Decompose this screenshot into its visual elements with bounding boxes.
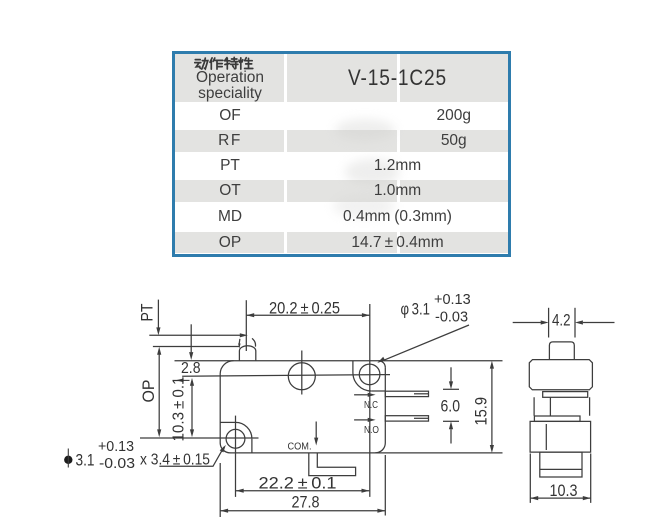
top-right mounting ear left edge xyxy=(352,361,354,373)
6.0 upper arrow xyxy=(450,367,452,381)
side lower inner line xyxy=(545,424,547,450)
body bottom-right corner arc xyxy=(375,443,385,453)
bottom-left ear top line xyxy=(220,421,235,423)
bottom-left ear right edge xyxy=(251,439,253,453)
value 0.4mm (0.3mm) xyxy=(287,202,508,232)
plunger phantom tick left xyxy=(238,339,241,344)
label RF xyxy=(175,130,285,152)
bottom-left hole crosshair horizontal (OP / 10.3 extension) xyxy=(140,437,259,439)
free-position line arrowhead xyxy=(240,333,248,337)
2.8 upper arrow xyxy=(190,324,192,352)
switch body bottom edge + right extension line xyxy=(230,452,503,454)
svg-text:10.3 ± 0.1: 10.3 ± 0.1 xyxy=(171,377,188,442)
switch body right edge xyxy=(384,367,386,443)
10.3 dimension line xyxy=(191,381,193,430)
value 14.7±0.4mm xyxy=(287,232,508,253)
svg-text:6.0: 6.0 xyxy=(441,398,461,416)
side 4.2 left arrow xyxy=(513,322,541,324)
svg-text:20.2 ± 0.25: 20.2 ± 0.25 xyxy=(269,300,340,318)
side top block xyxy=(529,360,592,390)
header row xyxy=(175,54,508,102)
side bottom block inner line xyxy=(540,468,582,470)
svg-text:+0.13: +0.13 xyxy=(98,439,134,455)
top-right mounting ear arc xyxy=(353,373,371,392)
column separator 1 xyxy=(284,54,287,254)
svg-text:+0.13: +0.13 xyxy=(434,292,471,308)
row OP xyxy=(175,232,508,253)
svg-text:N.C: N.C xyxy=(364,400,378,411)
side lower block xyxy=(530,421,591,452)
svg-text:N.O: N.O xyxy=(364,425,379,436)
header: V-15-1C25 xyxy=(304,54,492,102)
svg-text:PT: PT xyxy=(139,304,157,322)
row MD xyxy=(175,202,508,232)
label OP xyxy=(175,232,285,253)
body bottom-left corner arc xyxy=(220,443,230,453)
svg-text:10.3: 10.3 xyxy=(550,482,578,500)
N.C arrow xyxy=(354,394,368,396)
row PT xyxy=(175,152,508,180)
side 4.2 extension lines xyxy=(548,308,550,338)
side 4.2 right arrow xyxy=(583,322,615,324)
header: Operation speciality xyxy=(175,71,285,86)
side middle block xyxy=(534,397,590,415)
svg-text:-0.03: -0.03 xyxy=(99,456,135,472)
label OT xyxy=(175,180,285,202)
value 50g xyxy=(400,130,509,152)
side 10.3 extension lines xyxy=(530,454,590,503)
plunger phantom arc right xyxy=(252,338,256,346)
svg-text:-0.03: -0.03 xyxy=(435,310,468,326)
watermark smudges xyxy=(335,119,395,141)
6.0 lower arrow xyxy=(450,429,452,443)
PT dimension arrow xyxy=(157,300,159,328)
N.O terminal tab xyxy=(385,416,428,421)
svg-text:OP: OP xyxy=(140,380,158,403)
top-right hole xyxy=(359,364,380,385)
svg-text:COM.: COM. xyxy=(288,442,312,453)
switch body top edge + left/right extension lines xyxy=(175,360,503,362)
phi3.1 leader line xyxy=(382,325,470,361)
bottom-left ear arc xyxy=(236,422,252,438)
side 10.3 dimension line xyxy=(530,497,590,499)
label PT xyxy=(175,152,285,180)
N.C terminal tab xyxy=(385,391,428,396)
6.0 upper reference line xyxy=(443,388,459,390)
bottom-left hole xyxy=(226,429,245,448)
27.8 right extension line xyxy=(384,455,386,516)
svg-text:4.2: 4.2 xyxy=(552,312,571,330)
top-center hole center line xyxy=(301,351,303,395)
oblong-hole leader line xyxy=(159,447,224,466)
top-center hole xyxy=(288,363,315,390)
free-position line (line1) xyxy=(149,334,240,336)
15.9 dimension line xyxy=(491,368,493,446)
spec table xyxy=(172,51,511,257)
20.2 left extension line xyxy=(245,300,247,351)
COM terminal (L shape) xyxy=(309,453,356,476)
svg-text:27.8: 27.8 xyxy=(292,494,320,512)
side bottom block xyxy=(540,452,582,477)
operating-position line end arrowhead xyxy=(238,344,241,349)
header: Chinese 动作特性 xyxy=(194,55,260,71)
top-right corner arc xyxy=(379,361,386,368)
side middle inner line xyxy=(549,397,551,415)
value 1.2mm xyxy=(287,152,508,180)
stray left arrow mark xyxy=(183,379,190,381)
phi3.1 x 3.4 oblong-hole label (bottom-left) xyxy=(64,456,72,464)
svg-text:φ 3.1: φ 3.1 xyxy=(401,301,431,319)
row RF xyxy=(175,130,508,152)
bottom-left hole center line vertical (22.2 extension) xyxy=(235,416,237,497)
27.8 dimension line xyxy=(220,510,385,512)
top-right hole center line vertical (20.2 / 22.2 extension) xyxy=(369,304,371,497)
top holes center line horizontal xyxy=(182,375,390,377)
body top-left corner arc xyxy=(220,361,233,374)
side plunger xyxy=(549,342,574,360)
value 1.0mm xyxy=(287,180,508,202)
N.O arrow xyxy=(354,419,368,421)
OP dimension line xyxy=(158,354,160,430)
22.2 dimension line xyxy=(236,490,370,492)
svg-text:22.2 ± 0.1: 22.2 ± 0.1 xyxy=(259,475,337,493)
20.2 dimension line xyxy=(246,314,369,316)
side N.C tab xyxy=(543,392,588,398)
side N.O tab xyxy=(534,416,580,421)
operating-position line (line2) xyxy=(153,346,240,348)
COM arrow xyxy=(315,422,317,439)
switch body left edge xyxy=(219,374,221,444)
6.0 lower reference line xyxy=(443,420,459,422)
label OF xyxy=(175,102,285,130)
column separator 2 xyxy=(397,54,400,254)
plunger (actuator button) xyxy=(239,346,255,361)
svg-text:15.9: 15.9 xyxy=(473,397,491,426)
row OF xyxy=(175,102,508,130)
svg-text:3.1: 3.1 xyxy=(76,452,95,470)
top-right ear bottom line xyxy=(371,390,385,392)
row OT xyxy=(175,180,508,202)
svg-text:2.8: 2.8 xyxy=(181,360,201,377)
27.8 left extension line xyxy=(219,463,221,517)
label MD xyxy=(175,202,285,232)
value 200g xyxy=(400,102,509,130)
